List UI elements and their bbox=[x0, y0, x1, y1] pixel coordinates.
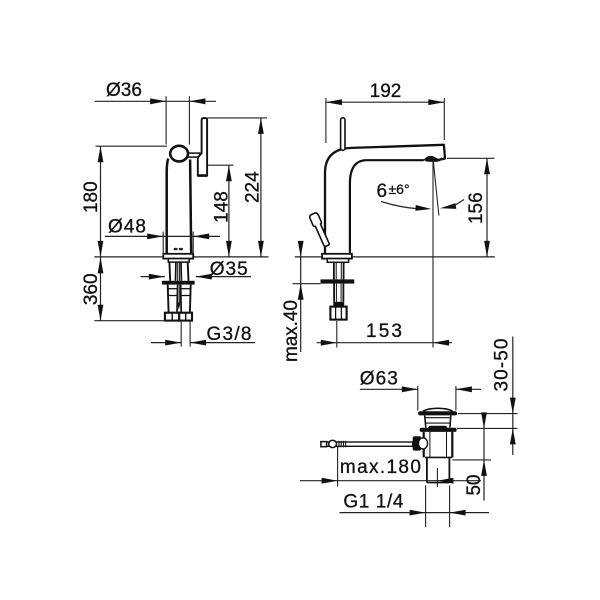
dimension 224 bbox=[207, 118, 267, 257]
svg-text:max.40: max.40 bbox=[281, 300, 302, 362]
dimension max.180 bbox=[300, 447, 481, 487]
svg-text:156: 156 bbox=[466, 192, 487, 224]
dimension 180 bbox=[81, 146, 167, 257]
svg-text:Ø35: Ø35 bbox=[210, 259, 248, 280]
threaded shank upper (side view) bbox=[334, 262, 344, 279]
svg-text:50: 50 bbox=[464, 475, 485, 496]
svg-text:6: 6 bbox=[377, 181, 388, 202]
handle blade (front view) bbox=[197, 118, 207, 176]
side lever (side view) bbox=[309, 212, 331, 248]
svg-text:Ø63: Ø63 bbox=[360, 368, 398, 389]
drain body bbox=[424, 432, 453, 458]
svg-text:153: 153 bbox=[366, 321, 402, 342]
mounting washer (front view) bbox=[162, 281, 195, 285]
dimension G3/8 bbox=[151, 321, 255, 347]
dimension G1 1/4 bbox=[339, 485, 489, 527]
joystick handle (side view) bbox=[341, 118, 345, 151]
faucet body cylinder (front view) bbox=[167, 159, 192, 254]
dimension 156 bbox=[447, 158, 495, 257]
svg-text:360: 360 bbox=[81, 273, 102, 305]
logo mark on body bbox=[174, 248, 183, 250]
connection nut (side view) bbox=[330, 307, 346, 320]
dimension 50 bbox=[453, 412, 492, 500]
svg-text:192: 192 bbox=[370, 81, 402, 102]
svg-text:30-50: 30-50 bbox=[491, 339, 512, 392]
aerator outlet (side view) bbox=[424, 156, 442, 162]
threaded shank lower (side view) bbox=[333, 284, 344, 307]
base flange (side view) bbox=[322, 254, 352, 259]
svg-text:180: 180 bbox=[81, 181, 102, 213]
dimension max.40 bbox=[281, 241, 321, 362]
svg-text:224: 224 bbox=[242, 171, 263, 203]
dimension 360 bbox=[81, 257, 165, 321]
pop-up horizontal rod bbox=[321, 440, 413, 447]
svg-text:148: 148 bbox=[211, 191, 232, 223]
dimension 30-50 bbox=[457, 337, 518, 456]
counter top line (side view) bbox=[295, 256, 495, 258]
pop-up pull rod with pointed tip (front view) bbox=[177, 285, 181, 310]
dimension Ø35 bbox=[141, 259, 252, 280]
svg-text:G3/8: G3/8 bbox=[207, 324, 252, 345]
dimension 192 bbox=[326, 81, 444, 143]
svg-text:Ø48: Ø48 bbox=[108, 217, 146, 238]
angle annotation 6±6° bbox=[377, 160, 465, 348]
drain cap rim bbox=[418, 411, 457, 415]
dimension 153 bbox=[317, 321, 453, 348]
supply tubes lower with adapters (front view) bbox=[168, 285, 191, 313]
dimension 148 bbox=[207, 165, 233, 257]
dimension Ø48 bbox=[105, 217, 220, 254]
dimension Ø36 bbox=[95, 80, 216, 145]
svg-text:max.180: max.180 bbox=[340, 457, 421, 478]
counter top line (front view) bbox=[94, 256, 268, 258]
spout body outline (side view) bbox=[325, 145, 445, 254]
drain tailpipe G1 1/4 thread bbox=[427, 457, 450, 482]
drain neck bbox=[425, 415, 451, 427]
connection nuts (front view) bbox=[165, 313, 192, 321]
pop-up rod ball joint bbox=[413, 436, 428, 450]
ball joint (front view) bbox=[170, 146, 188, 162]
base flange (front view) bbox=[163, 254, 193, 259]
drain clamp wedge bbox=[428, 426, 448, 429]
supply tubes upper (front view) bbox=[169, 262, 188, 281]
svg-text:±6°: ±6° bbox=[389, 181, 410, 197]
lever connector bar (front view) bbox=[186, 153, 200, 157]
mounting washer (side view) bbox=[321, 279, 355, 283]
svg-text:G1 1/4: G1 1/4 bbox=[343, 492, 403, 513]
shank step (front view) bbox=[168, 259, 189, 263]
drain flange bbox=[420, 428, 457, 432]
dimension Ø63 bbox=[360, 368, 481, 410]
shank step (side view) bbox=[327, 259, 348, 263]
drain cap dome bbox=[423, 408, 453, 411]
svg-text:Ø36: Ø36 bbox=[106, 80, 142, 101]
